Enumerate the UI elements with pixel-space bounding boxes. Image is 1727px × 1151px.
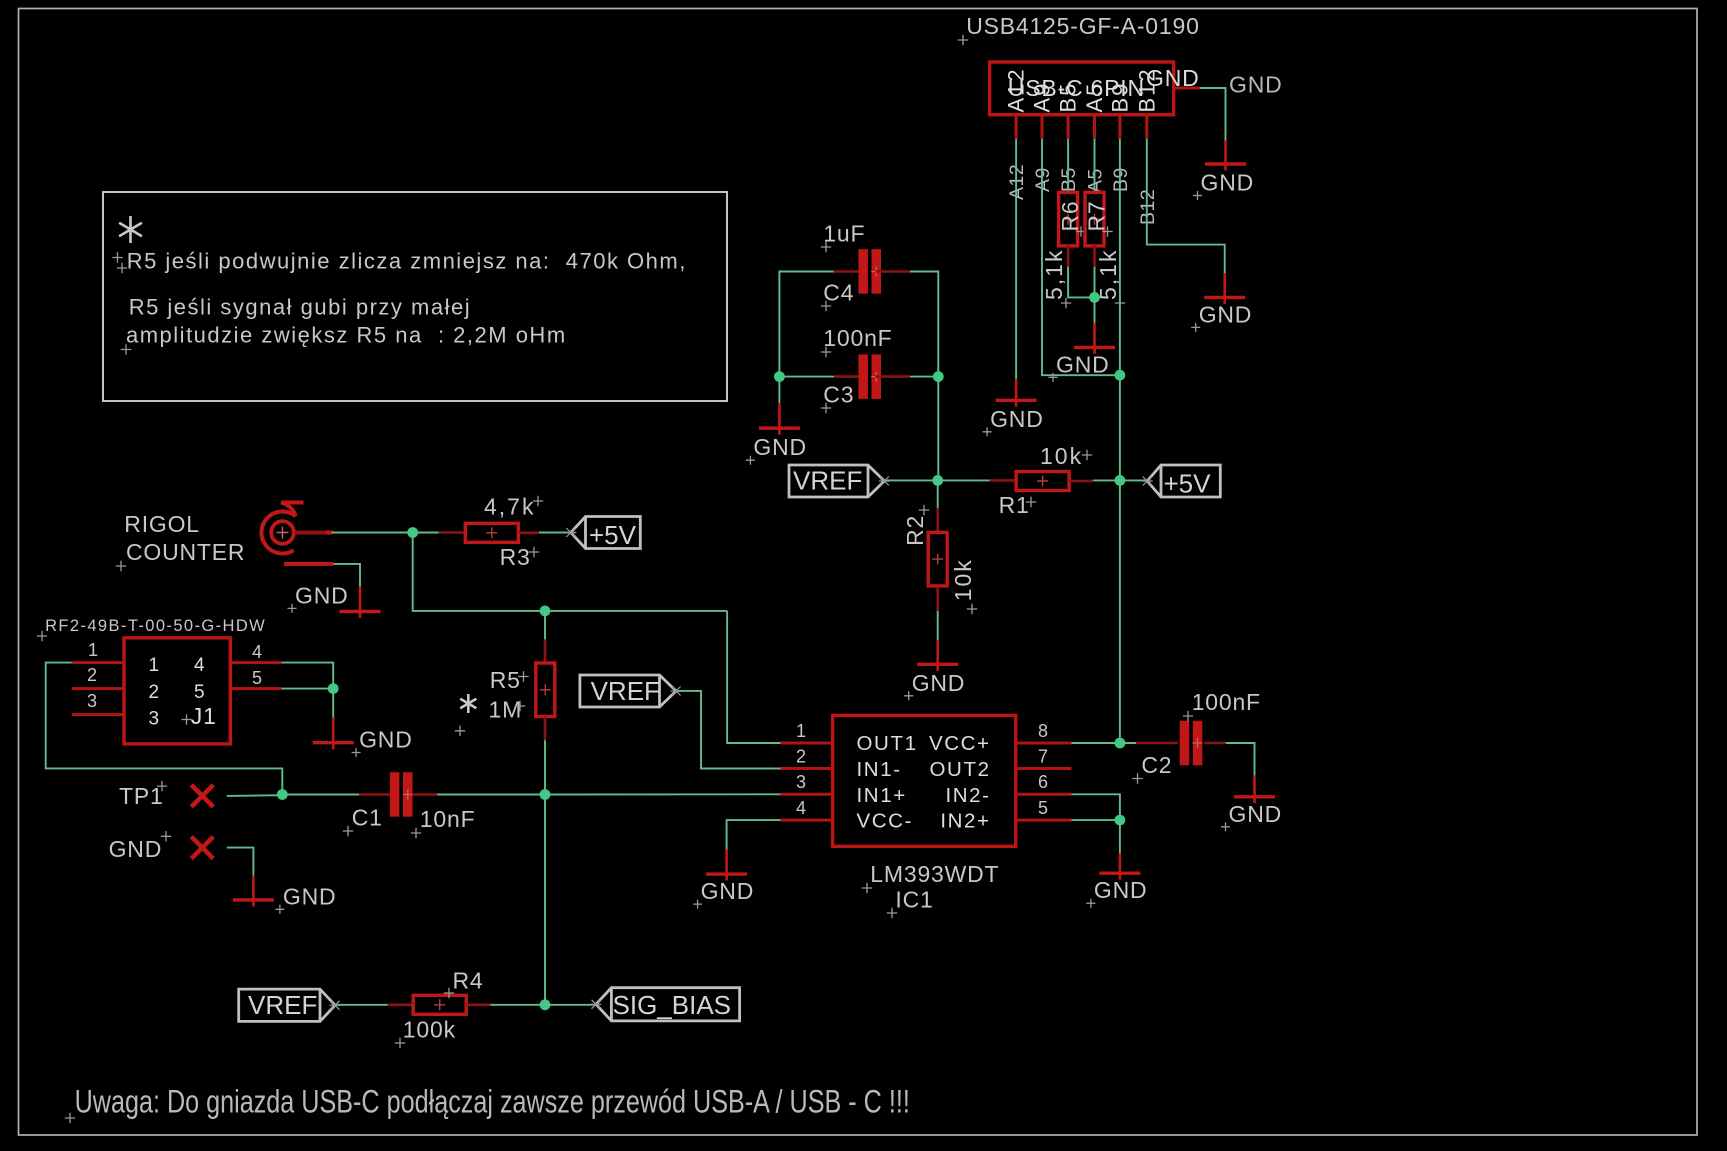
ground under R2 [904,640,965,700]
wire IC pin6 to pin5 junction [1071,794,1120,820]
svg-text:5,1k: 5,1k [1095,249,1121,300]
resistor R7 body [1085,192,1104,246]
ground under BNC [288,582,381,618]
svg-text:IN2+: IN2+ [940,810,990,833]
junction IN2- / IN2+ [1115,815,1126,826]
power flag +5V (at R3) [565,517,640,550]
svg-text:3: 3 [796,772,806,792]
svg-text:100nF: 100nF [823,325,892,351]
USB-C pin A12 stub [1004,67,1029,139]
capacitor C3 labels [821,325,893,413]
wire IC pin5 to junction [1071,819,1120,821]
svg-text:IN2-: IN2- [945,784,990,807]
resistor R5 labels [455,667,529,736]
wire R1 to rail [1093,479,1120,481]
junction VREF/R2 [932,475,943,486]
wire A12 to gnd [1015,139,1017,379]
C3 left lead [834,375,864,378]
junction R5 top [540,606,551,617]
resistor R1 labels [999,443,1093,518]
svg-text:5: 5 [194,682,205,703]
svg-text:8: 8 [1038,721,1048,741]
svg-text:GND: GND [1229,801,1283,827]
ground under IC pin5 [1086,853,1147,908]
wire IC pin4 to gnd [727,820,781,850]
wire J1 pins 4/5 to gnd [282,663,334,689]
svg-text:10k: 10k [950,558,976,601]
svg-text:C3: C3 [823,381,854,407]
J1 pin 3 stub [72,691,124,715]
ground under B12 [1191,273,1252,332]
net label B9 [1110,167,1132,192]
svg-text:3: 3 [87,691,97,711]
svg-text:GND: GND [1201,170,1255,196]
svg-text:GND: GND [1229,72,1283,98]
svg-text:100k: 100k [403,1016,456,1042]
net flag VREF (row) [789,465,890,497]
IC1 pin 7 [1016,746,1072,768]
wire junction to IC pin3 [545,793,781,795]
junction C3/C4 right [933,371,944,382]
svg-text:RIGOL: RIGOL [124,511,200,537]
svg-text:R7: R7 [1084,200,1110,231]
resistor R6 body [1059,192,1078,246]
wire junction to C2 [1120,742,1136,744]
C2 left lead [1136,742,1178,745]
note text line 1 [112,249,687,274]
R6 top lead [1067,192,1070,195]
svg-text:10k: 10k [1040,443,1083,469]
svg-text:OUT2: OUT2 [930,758,991,781]
wire IC pin8 to rail junction [1071,742,1120,744]
resistor R7 labels [1084,200,1126,308]
svg-text:VCC+: VCC+ [929,732,991,755]
BNC connector X1 [261,503,333,564]
C4 left lead [834,270,864,273]
svg-text:6: 6 [1038,772,1048,792]
junction +5V rail [1115,475,1126,486]
resistor R4 body [413,995,466,1014]
connector J1 RF2-49B-T-00-50-G-HDW label [37,617,266,641]
svg-text:VREF: VREF [793,465,862,495]
wire R6 bottom to junction [1068,267,1094,298]
resistor R3 labels [484,493,543,570]
wire R5 bottom to SIG_BIAS row [544,740,546,1005]
wire C3 right [910,376,938,378]
junction C3/C4 left [774,371,785,382]
net flag VREF (bottom) [239,989,341,1021]
TP1 X mark [191,785,213,807]
capacitor C1 body [390,772,413,817]
svg-text:amplitudzie zwiększ R5 na : 2: amplitudzie zwiększ R5 na : 2,2M oHm [126,322,567,347]
svg-text:R5 jeśli podwujnie zlicza zmni: R5 jeśli podwujnie zlicza zmniejsz na: 4… [127,249,687,274]
R3 left lead [439,531,465,534]
svg-text:GND: GND [1056,351,1110,377]
junction R6/R7 [1089,292,1100,303]
note text line 3 [121,322,567,354]
wire C4 right to rail corner [910,272,938,377]
svg-text:GND: GND [1094,877,1148,903]
J1 pin 4 stub [230,642,281,663]
svg-text:4: 4 [796,798,806,818]
svg-text:+5V: +5V [589,520,637,550]
capacitor C2 body [1180,721,1203,766]
capacitor C2 labels [1132,689,1261,784]
wire GND X to gnd symbol [227,848,254,876]
net label B5 [1058,167,1080,192]
J1 pin 5 stub [230,668,281,689]
wire junction down to R2 [937,480,939,508]
USB-C pin B5 stub [1056,82,1081,139]
net label A9 [1032,167,1054,192]
USB-C 6PIN title text [1008,75,1145,101]
ground under A12 [983,379,1044,436]
IC1 labels [862,861,1000,918]
capacitor C4 body [858,249,881,294]
wire junction to SIG_BIAS [545,1004,596,1006]
svg-text:VREF: VREF [591,676,660,706]
svg-text:1M: 1M [489,697,523,723]
IC1 pin 8 [1016,721,1072,743]
C1 right lead [412,793,437,796]
svg-text:R5 jeśli sygnał gubi przy małe: R5 jeśli sygnał gubi przy małej [129,295,471,320]
wire junction to R3 [413,532,439,534]
svg-text:5,1k: 5,1k [1041,249,1067,300]
C3 right lead [875,375,910,378]
R3 right lead [518,531,539,534]
svg-text:C4: C4 [823,279,854,305]
svg-text:RF2-49B-T-00-50-G-HDW: RF2-49B-T-00-50-G-HDW [45,617,266,635]
svg-text:USB4125-GF-A-0190: USB4125-GF-A-0190 [966,13,1199,39]
ground under USB GND pin [1193,141,1254,201]
wire junction down and right (OUT1 net) [413,533,727,611]
svg-text:R3: R3 [500,544,531,570]
svg-text:GND: GND [359,727,413,753]
IC1 pin 5 [1016,798,1072,820]
capacitor C4 labels [821,221,866,312]
capacitor C1 labels [343,804,476,838]
svg-text:Uwaga: Do gniazda USB-C podłąc: Uwaga: Do gniazda USB-C podłączaj zawsze… [75,1085,910,1121]
USB-C pin A9 stub [1030,82,1055,139]
resistor R5 body [536,663,555,717]
GND X mark [191,837,213,859]
wire TP1 to junction [227,794,282,797]
svg-text:4: 4 [194,655,205,676]
wire VREF to IC pin2 [676,691,780,769]
svg-text:R4: R4 [453,968,484,994]
wire junction to C1 [282,794,359,796]
svg-text:A9: A9 [1032,167,1054,192]
svg-text:100nF: 100nF [1192,689,1261,715]
svg-text:GND: GND [295,582,349,608]
power flag +5V (right) [1142,465,1221,498]
wire R7 bottom to junction [1094,267,1096,298]
svg-text:2: 2 [149,682,160,703]
svg-text:4,7k: 4,7k [484,493,535,519]
wire GND pin to gnd [1200,88,1226,141]
resistor R2 labels [902,505,977,614]
svg-text:B12: B12 [1137,189,1159,225]
junction J1 pins 4/5 [328,683,339,694]
svg-text:3: 3 [149,709,160,730]
C4 right lead [875,270,910,273]
wire VREF to junction [884,479,937,481]
svg-text:GND: GND [701,878,755,904]
ground under R6/R7 [1049,323,1116,382]
test point TP1 label [119,781,167,809]
IC1 pin 4 [781,798,833,820]
connector J1 body [124,638,230,744]
R1 right lead [1069,480,1093,483]
svg-text:1: 1 [149,655,160,676]
svg-text:GND: GND [912,670,966,696]
IC1 pin 3 [781,772,833,794]
svg-text:7: 7 [1038,746,1048,766]
resistor R3 body [465,523,518,542]
wire C3/C4 right rail down to VREF row [937,377,939,481]
svg-text:J1: J1 [191,703,217,729]
svg-text:1: 1 [796,721,806,741]
wire junction down [1094,297,1096,323]
net label A12 [1006,164,1028,200]
wire C3 left [779,376,834,378]
wire BNC to junction [332,532,413,534]
svg-text:A5: A5 [1085,168,1107,193]
svg-text:OUT1: OUT1 [857,732,918,755]
resistor R1 body [1016,472,1069,491]
USB-C pin B9 stub [1107,82,1132,139]
svg-text:B9: B9 [1110,167,1132,192]
wire J1 pin1 to TP1 row [46,663,283,795]
wire BNC shield to gnd [333,564,360,587]
svg-text:5: 5 [252,668,262,688]
svg-text:VCC-: VCC- [857,810,914,833]
ground under C2 [1221,776,1282,832]
svg-text:GND: GND [1199,301,1253,327]
wire C2 to gnd [1226,743,1255,776]
svg-text:A12: A12 [1006,164,1028,200]
IC1 pin 1 [781,721,833,743]
net label GND top right [1229,72,1283,98]
resistor R4 labels [395,968,484,1049]
svg-text:5: 5 [1038,798,1048,818]
ground under J1 [313,718,413,757]
svg-text:4: 4 [252,642,262,662]
wire C1 to junction [437,794,545,796]
wire R2 to gnd [937,611,939,640]
connector USB-C 6PIN body [990,62,1174,115]
svg-text:C2: C2 [1141,752,1172,778]
ground under C3/C4 [746,403,807,464]
label RIGOL COUNTER [116,511,246,571]
R4 left lead [388,1003,414,1006]
note text line 2 [129,295,471,320]
J1 pin 1 stub [72,640,124,663]
svg-text:GND: GND [283,883,337,909]
BNC center pin [295,531,326,535]
USB-C pin A5 stub [1082,82,1107,139]
R1 left lead [990,479,1016,482]
R7 bottom lead [1093,245,1096,267]
net label B12 [1137,189,1159,225]
svg-text:+5V: +5V [1164,468,1212,498]
svg-text:10nF: 10nF [420,806,476,832]
svg-text:R5: R5 [490,667,521,693]
wire B12 to gnd [1147,139,1225,274]
R2 bottom lead [936,586,939,611]
junction A9/B9 rail [1115,370,1126,381]
svg-text:R2: R2 [902,515,928,546]
svg-text:GND: GND [990,406,1044,432]
net flag SIG_BIAS [591,988,740,1021]
svg-text:VREF: VREF [248,990,317,1020]
warning text [65,1085,910,1123]
svg-text:1: 1 [88,640,98,660]
wire junction to R5 [544,611,546,640]
IC1 pin 6 [1016,772,1072,794]
svg-text:2: 2 [796,746,806,766]
wire B5 to R6 [1067,139,1069,194]
R6 bottom lead [1067,245,1070,267]
BNC shield pin [284,562,333,566]
junction R4/SIG_BIAS row [540,999,551,1010]
svg-text:GND: GND [109,836,163,862]
R2 top lead [936,508,939,532]
wire R3 to +5V [539,532,571,534]
svg-text:R1: R1 [999,492,1030,518]
C1 left lead [359,793,390,796]
resistor R6 labels [1041,200,1086,308]
svg-text:USB-C 6PIN: USB-C 6PIN [1008,75,1145,101]
C2 right lead [1204,742,1226,745]
J1 pin 2 stub [72,665,124,689]
svg-text:C1: C1 [352,804,383,830]
wire R4 to junction [490,1004,545,1006]
wire down to IC pin1 [727,611,780,743]
svg-text:SIG_BIAS: SIG_BIAS [613,990,732,1020]
USB-C pin B12 stub [1134,67,1159,139]
svg-text:2: 2 [87,665,97,685]
capacitor C3 body [858,354,881,399]
USB-C pin GND (right side) [1146,65,1200,91]
svg-text:1uF: 1uF [823,221,865,247]
junction TP1/J1 [277,789,288,800]
wire VREF to R4 [335,1004,388,1006]
net label A5 [1085,168,1107,193]
R4 right lead [466,1003,490,1006]
op-amp IC1 LM393WDT body [833,715,1016,846]
note box [103,192,727,401]
IC1 pin 2 [781,746,833,768]
ground under IC pin4 [693,850,754,909]
svg-text:IN1+: IN1+ [857,784,907,807]
svg-text:B5: B5 [1058,167,1080,192]
wire A5 to R7 [1094,139,1096,194]
connector X2 USB4125-GF-A-0190 title [958,13,1200,45]
wire rail to +5V flag [1120,479,1147,481]
wire junction to R1 [938,479,990,481]
R5 top lead [544,639,547,663]
ground under GND X [233,876,337,914]
svg-text:R6: R6 [1057,200,1083,231]
wire junction to gnd [1119,820,1121,853]
wire C4 left loop [779,272,833,404]
svg-text:LM393WDT: LM393WDT [870,861,999,887]
svg-text:GND: GND [753,434,807,460]
junction C1/pin3 row [540,789,551,800]
wire B9 rail down to VCC row [1119,139,1121,743]
R5 bottom lead [544,716,547,740]
wire A9 down and right to B9 rail [1042,139,1120,375]
resistor R2 body [928,532,947,586]
svg-text:IC1: IC1 [895,886,933,912]
junction VCC+ / C2 [1115,738,1126,749]
svg-text:COUNTER: COUNTER [126,539,245,565]
ground net X label [109,831,172,862]
svg-text:IN1-: IN1- [857,758,902,781]
net flag VREF (to IC pin2) [580,675,682,707]
junction BNC/R3 [407,527,418,538]
